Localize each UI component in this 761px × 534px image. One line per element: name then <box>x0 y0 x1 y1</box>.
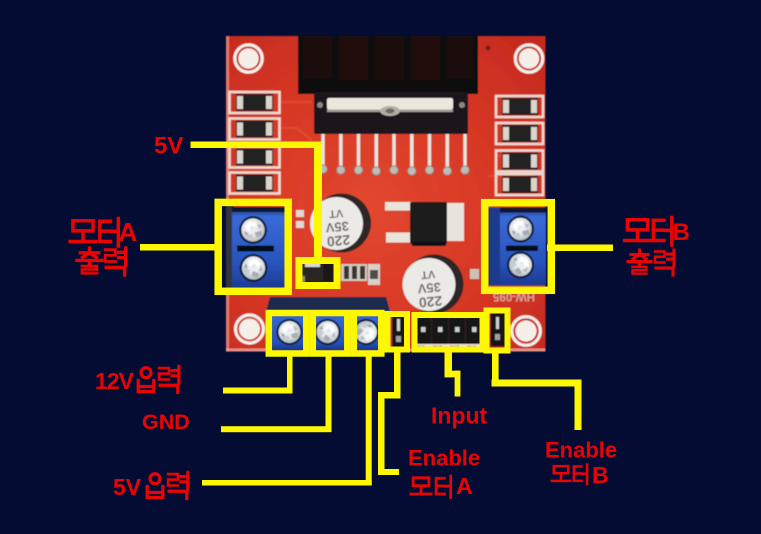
box screw 12V <box>269 313 307 354</box>
svg-text:5V: 5V <box>113 474 142 500</box>
wire EnableA seg1 <box>394 352 401 399</box>
diode D2 <box>230 119 280 140</box>
box motorA output <box>218 202 288 291</box>
motor B terminal block <box>488 208 546 286</box>
regulator Q1 <box>385 202 464 246</box>
svg-text:Enable: Enable <box>408 446 480 471</box>
label Enable B <box>545 438 617 489</box>
wire EnableB seg1 <box>492 352 499 387</box>
diode D6 <box>496 123 543 144</box>
wire EnableA seg2 <box>378 392 401 399</box>
svg-text:12V: 12V <box>95 368 135 394</box>
box motorB output <box>485 203 552 291</box>
box pin EnableB <box>487 311 508 351</box>
svg-text:GND: GND <box>142 410 190 434</box>
label 12V input <box>95 367 179 395</box>
smd pad left of motor B block <box>470 269 479 279</box>
mounting hole BR <box>512 317 541 346</box>
mounting hole BL <box>236 315 264 343</box>
label chulryeok left (출력) <box>77 248 126 275</box>
box screw 5V <box>354 313 382 354</box>
svg-text:35V: 35V <box>325 219 350 236</box>
label motorA (모터A) <box>70 217 137 247</box>
wire EnableA seg4 <box>378 469 399 475</box>
wire EnableB seg3 <box>575 380 582 431</box>
smd pads left of C1 <box>296 210 304 228</box>
wire Input seg2 <box>445 371 461 378</box>
label motorB (모터B) <box>625 218 690 247</box>
label Enable A <box>408 446 480 500</box>
capacitor C2 <box>403 255 464 314</box>
board substrate <box>226 36 546 352</box>
pin header INPUT 4p <box>414 315 483 352</box>
L298N chip U1 <box>314 92 468 134</box>
wire GND horizontal <box>221 426 332 432</box>
svg-text:Enable: Enable <box>545 438 617 463</box>
label chulryeok right (출력) <box>628 250 674 275</box>
svg-text:B: B <box>673 219 690 246</box>
diode D4 <box>230 173 280 194</box>
pin header EN-A <box>392 315 407 348</box>
wire 12V vertical <box>287 353 293 393</box>
wire Input seg3 <box>455 371 461 397</box>
wire motorB leader <box>547 245 613 252</box>
smd cap <box>368 264 380 285</box>
wire 5V horizontal <box>191 142 323 149</box>
pin solder balls <box>319 165 469 175</box>
wire EnableB seg2 <box>492 380 582 387</box>
diode D8 <box>496 174 543 195</box>
via top right <box>486 46 491 51</box>
mounting hole TL <box>235 45 262 72</box>
chip pins <box>323 134 465 169</box>
box pins Input <box>415 315 483 350</box>
trace right <box>488 156 528 176</box>
trace left <box>280 102 312 140</box>
PCB board photo <box>226 36 546 352</box>
svg-text:VT: VT <box>328 206 343 219</box>
wire 5Vin horizontal <box>202 480 372 486</box>
svg-text:A: A <box>456 473 473 499</box>
bottom terminal block 12V GND 5V <box>266 311 390 351</box>
wire GND vertical <box>326 353 332 432</box>
smd resistor pack <box>341 264 367 281</box>
mounting hole TR <box>515 45 542 72</box>
wire Input seg1 <box>445 352 453 377</box>
svg-text:5V: 5V <box>154 133 183 160</box>
heatsink <box>298 36 478 94</box>
svg-text:A: A <box>119 217 138 247</box>
svg-text:B: B <box>592 462 609 488</box>
box pin EnableA <box>388 314 408 350</box>
wire EnableA seg3 <box>378 392 385 470</box>
wire 12V horizontal <box>223 388 293 394</box>
wire motorA leader <box>140 244 218 251</box>
pin header EN-B <box>491 313 506 347</box>
diode D3 <box>230 147 280 168</box>
box screw GND <box>313 313 348 354</box>
wire 5Vin vertical <box>366 353 372 486</box>
label 5V input <box>113 473 188 501</box>
box jumper 5V <box>299 261 337 286</box>
capacitor C1 <box>310 194 371 253</box>
svg-text:35V: 35V <box>417 280 442 297</box>
motor A terminal block <box>226 204 288 291</box>
diode D7 <box>496 151 543 172</box>
svg-text:VT: VT <box>420 267 435 280</box>
svg-text:Input: Input <box>431 403 488 429</box>
diode D5 <box>496 96 543 117</box>
diode D1 <box>230 92 280 113</box>
wire 5V vertical <box>314 142 322 264</box>
bottom terminal body top <box>266 297 390 311</box>
jumper J1 5V-EN <box>296 258 335 284</box>
